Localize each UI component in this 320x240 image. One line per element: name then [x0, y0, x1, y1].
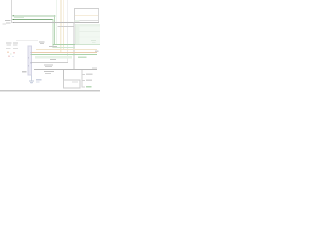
pin stub y80.5 [82, 79, 85, 82]
connector stub C1 top-left vertical [11, 0, 12, 23]
label: faint text inside U3 [72, 81, 78, 82]
label: pale green highlight band y56-58.5 [35, 56, 72, 58]
label: green text right of band [78, 57, 87, 59]
wire W5: tan/salmon y52.5 from x32 to x97 [32, 52, 98, 53]
component U2: pale green box right-middle [75, 24, 100, 45]
wire: branch vertical x63.5 from W8 down to box [63, 70, 64, 80]
connector J1: tall lavender block [28, 46, 32, 75]
label: faint leader line y40.5 left [16, 39, 38, 42]
label: text blob A above W8 [44, 65, 53, 66]
label: legend text block left x5-18 y42-49 [6, 43, 12, 44]
wire: faint tan line inside U1 [75, 15, 98, 16]
wire: pale tan vertical feeder x63.5 from top [63, 0, 64, 27]
label: text blob B below W8 [44, 71, 54, 72]
pin stub y74.5 [82, 73, 85, 76]
wire: gray vertical x67.5 y27-62.5 [67, 27, 68, 63]
wire W7: gray y62.5 from connector to x67.5 [32, 62, 69, 63]
wire: pale green vertical feeder x56.5 from top [56, 0, 57, 27]
wire W1 vertical: x55 down to y44.5 [54, 15, 55, 45]
wire: pale gray vertical feeder x67.5 from top [67, 0, 68, 27]
label: pin text 1 [86, 74, 93, 75]
wire W2 vertical: x53 down to y47 [52, 19, 55, 48]
wire: tan vertical x60.5 y27-52 [60, 27, 61, 53]
label: tick marks right end of W5/W6 [95, 51, 99, 52]
label: green wire text above W1 [14, 17, 24, 18]
wire: pale tan vertical feeder x60.5 from top [60, 0, 62, 27]
label: tiny text "10" near x40,y41-44 [39, 42, 45, 43]
wire: dark gray vertical x73.5 from U1 down to y70 [74, 22, 75, 70]
wire: bottom separator line y90.5 full width [0, 90, 100, 91]
wire W1 horizontal: green y44.5 from x53 to x75 [53, 44, 76, 45]
wire W1: light green, y15.5 from x13 to x55 [13, 15, 56, 16]
label: tiny text left of ground wire [22, 71, 27, 72]
component U1: box top-right (open bottom) [74, 8, 99, 22]
ground G1 symbol [29, 81, 34, 85]
component U3: bottom box [64, 80, 81, 88]
label: tiny text under band [50, 59, 56, 60]
label: ground name text G301 [36, 79, 42, 80]
wire: green vertical continuation x56.5 y27-44 [56, 27, 57, 44]
pin stub y87 [82, 86, 85, 89]
wire: bottom-right pin tree vertical x82 [81, 70, 84, 88]
wire W6: green y54.5 from x32 to x97 [32, 54, 98, 55]
label: pin text 3 green [86, 86, 92, 87]
wire: light green y47.5 from x54 to x75 [53, 47, 75, 48]
label: faint marks inside U2 [91, 40, 96, 41]
wire W4: pale tan y49.5 from x36 to x97 [36, 49, 97, 50]
wire: gray y26.5 from x57.5 to x73.5 [58, 26, 74, 27]
label: small gray text above tan wire y46-48 [49, 46, 57, 47]
label: tiny text above right end of W8 [92, 67, 97, 68]
label: pin text 2 [86, 80, 92, 81]
label: pale green patch below U1 left [75, 20, 80, 22]
wire W8: gray y69.5 long from x34 to x97 [34, 69, 97, 70]
wire W2: green, y19.5 from x13 to x54 [13, 19, 53, 20]
background [0, 0, 100, 100]
label: tiny text left of C1 [5, 20, 11, 21]
label: colored legend dots [7, 52, 9, 53]
wire: U2 bottom edge light green [75, 44, 100, 45]
wire W3: gray, y22.5 from x13 to x99 [13, 22, 100, 23]
wire: ground drop from J1 bottom x31.5 y75-80.5 [31, 75, 32, 81]
wire: tan vertical x63.5 y27-50 [63, 27, 64, 50]
